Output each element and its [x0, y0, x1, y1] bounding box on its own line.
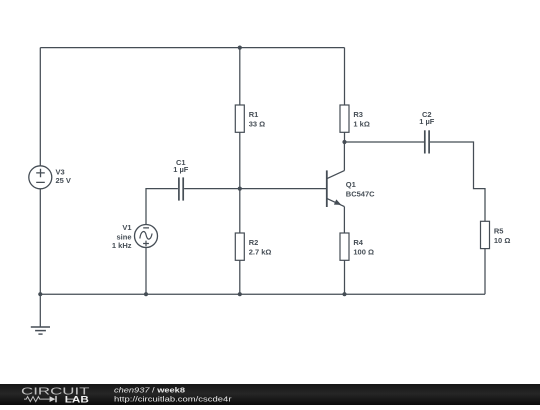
svg-text:R3: R3 [353, 110, 363, 119]
svg-text:R1: R1 [249, 110, 259, 119]
wire R4 bottom lead [344, 260, 346, 294]
svg-text:chen937 / week8: chen937 / week8 [114, 386, 185, 395]
wire collector [343, 142, 345, 171]
svg-text:V1: V1 [122, 223, 131, 232]
node ground [38, 292, 42, 296]
wire left rail upper [39, 48, 41, 166]
capacitor C2 [424, 130, 426, 153]
wire R1 top lead [239, 48, 241, 105]
wire base [240, 188, 327, 190]
wire V1 up to C1 row [146, 189, 178, 225]
wire C1 to node B [184, 188, 240, 190]
wire R1 to R2 [239, 132, 241, 233]
svg-text:100 Ω: 100 Ω [353, 247, 374, 256]
voltage source V1 [135, 225, 158, 248]
svg-text:R5: R5 [494, 227, 504, 236]
svg-text:25 V: 25 V [56, 176, 71, 185]
svg-text:33 Ω: 33 Ω [249, 119, 265, 128]
svg-text:R2: R2 [249, 238, 259, 247]
svg-text:LAB: LAB [65, 394, 89, 404]
svg-text:R4: R4 [353, 238, 363, 247]
node base / C1 [238, 187, 242, 191]
svg-text:V3: V3 [56, 167, 65, 176]
svg-text:1 µF: 1 µF [173, 165, 189, 174]
svg-text:Q1: Q1 [346, 180, 356, 189]
resistor R2 [235, 233, 244, 260]
capacitor C1 [178, 177, 180, 200]
ground [31, 326, 50, 328]
transistor Q1 [327, 170, 345, 207]
wire left rail lower [39, 189, 41, 294]
footer bar [0, 384, 540, 405]
svg-text:1 kΩ: 1 kΩ [353, 119, 369, 128]
svg-text:sine: sine [116, 232, 131, 241]
wire collector node to C2 [345, 141, 425, 143]
wire R5 bottom lead [484, 249, 486, 295]
node R4 bottom [342, 292, 346, 296]
voltage source V3 [29, 166, 52, 189]
logo resistor+diode wire [24, 397, 75, 402]
svg-text:1 µF: 1 µF [419, 117, 435, 126]
resistor R1 [235, 105, 244, 132]
wire R3 top lead [344, 48, 346, 105]
svg-text:BC547C: BC547C [346, 190, 375, 199]
wire R2 bottom lead [239, 260, 241, 294]
node R2 bottom [238, 292, 242, 296]
svg-text:http://circuitlab.com/cscde4r: http://circuitlab.com/cscde4r [114, 394, 232, 403]
wire V1 down to bottom rail [145, 248, 147, 295]
node V1 bottom [144, 292, 148, 296]
svg-text:1 kHz: 1 kHz [112, 241, 132, 250]
wire R3 bottom lead [344, 132, 346, 142]
wire C2 to R5 [430, 142, 485, 221]
resistor R5 [481, 221, 490, 248]
wire bottom rail [40, 293, 485, 295]
wire emitter [343, 207, 345, 233]
resistor R4 [340, 233, 349, 260]
CircuitLab logo [21, 387, 91, 405]
resistor R3 [340, 105, 349, 132]
svg-text:2.7 kΩ: 2.7 kΩ [249, 247, 272, 256]
wire ground stem [39, 294, 41, 327]
node top rail / R1 [238, 46, 242, 50]
wire top rail [40, 47, 344, 49]
svg-text:10 Ω: 10 Ω [494, 236, 510, 245]
node collector / C2 [342, 140, 346, 144]
